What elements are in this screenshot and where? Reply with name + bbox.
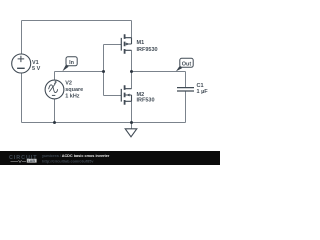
wire M2 gate lead <box>104 95 122 97</box>
svg-text:IRF9530: IRF9530 <box>137 47 158 53</box>
svg-text:M1: M1 <box>137 40 145 46</box>
wire C1 top lead <box>185 72 187 88</box>
svg-text:LAB: LAB <box>28 159 36 163</box>
node ground tee <box>130 121 133 124</box>
wire M1 source to rail <box>131 21 133 38</box>
wire V2 top lead <box>54 72 56 81</box>
label V1 value <box>32 66 41 72</box>
svg-text:In: In <box>69 60 75 66</box>
voltage source V1 <box>12 54 31 73</box>
svg-text:5 V: 5 V <box>32 66 41 72</box>
label V1 <box>32 60 39 66</box>
label M1 part <box>137 47 158 53</box>
wire gate bus vertical <box>103 45 105 96</box>
voltage source V2 <box>45 80 64 99</box>
wire M1 drain to M2 drain <box>131 50 133 88</box>
node input tee <box>102 70 105 73</box>
wire C1 bottom lead <box>185 91 187 123</box>
wire bottom rail <box>22 122 186 124</box>
svg-text:Out: Out <box>182 61 192 67</box>
svg-text:1 kHz: 1 kHz <box>65 93 80 99</box>
wire output net <box>132 71 186 73</box>
node V2 ground tee <box>53 121 56 124</box>
transistor M2 <box>121 85 131 105</box>
wire V2 bottom lead <box>54 99 56 123</box>
flag Out <box>176 58 193 71</box>
label M2 <box>137 92 145 98</box>
wire M1 gate lead <box>104 44 122 46</box>
node output tee <box>130 70 133 73</box>
svg-text:square: square <box>65 87 83 93</box>
wire M2 source to rail <box>131 101 133 122</box>
label C1 <box>197 83 204 89</box>
wire ground stub <box>131 123 133 129</box>
capacitor C1 <box>177 88 194 91</box>
wire V1 bottom lead <box>21 73 23 123</box>
transistor M1 <box>121 34 131 54</box>
svg-text:IRF530: IRF530 <box>137 98 155 104</box>
wire top rail <box>22 20 132 22</box>
label M2 part <box>137 98 155 104</box>
svg-text:V2: V2 <box>65 81 72 87</box>
label V2 waveform <box>65 87 83 93</box>
wire V1 top lead <box>21 21 23 55</box>
label C1 value <box>197 89 209 95</box>
watermark <box>0 151 220 165</box>
wire input net <box>55 71 104 73</box>
flag In <box>62 57 77 71</box>
svg-text:1 µF: 1 µF <box>197 89 209 95</box>
svg-text:http://circuitlab.com/c6uf85v: http://circuitlab.com/c6uf85v <box>42 159 94 163</box>
ground <box>125 129 137 137</box>
label M1 <box>137 40 145 46</box>
label V2 frequency <box>65 93 80 99</box>
label V2 <box>65 81 72 87</box>
svg-text:yumicrea / ACDC basic cmos inv: yumicrea / ACDC basic cmos inverter <box>42 154 110 158</box>
